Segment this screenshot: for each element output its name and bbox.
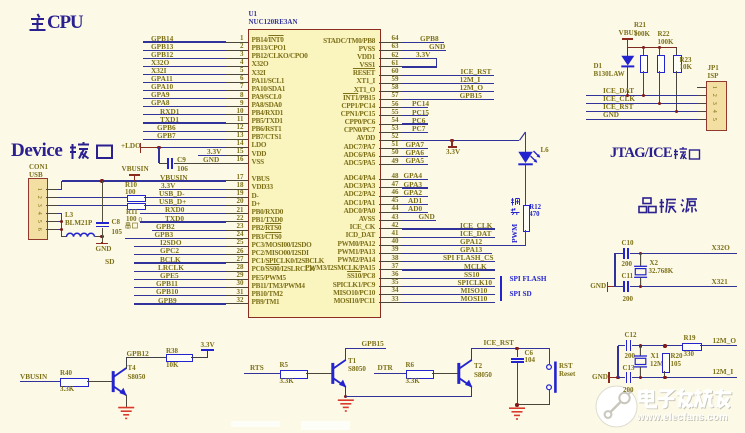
wire +LDO to U1 pin 14 bbox=[141, 147, 159, 148]
wire net TXD1 (U1 pin 11) bbox=[143, 122, 227, 123]
wire net USB_D+ (U1 pin 20) bbox=[144, 205, 226, 206]
net label GPB9 bbox=[158, 297, 177, 304]
net label PC15 bbox=[412, 109, 429, 116]
U1 pin 20 (D+) bbox=[226, 205, 248, 206]
C6 designator bbox=[525, 350, 534, 357]
U1 pin 40 (PWM0/PA12) bbox=[379, 245, 402, 246]
label SPI SD bbox=[510, 291, 532, 298]
U1 pin 24 (PB3/CTS0) bbox=[226, 238, 248, 239]
resistor R23 bbox=[673, 55, 681, 74]
junction T1 emitter/ground bbox=[344, 395, 347, 398]
R20 bottom lead bbox=[664, 371, 665, 378]
R23 value 10K bbox=[680, 64, 692, 71]
U1 pin 27 (PC1/SPICLK0/I2SBCLK) bbox=[226, 262, 248, 263]
resistor R20 bbox=[662, 353, 670, 373]
junction R20 bottom bbox=[663, 376, 666, 379]
net label GPA4 bbox=[404, 172, 423, 179]
power port 3.3V (R38) bbox=[207, 350, 208, 357]
wire R40 to T4 base bbox=[87, 381, 112, 382]
wire net USB_D- (U1 pin 19) bbox=[144, 197, 226, 198]
net label GPB12 bbox=[127, 350, 149, 357]
R21 value 100K bbox=[634, 31, 650, 38]
wire net SS10 (U1 pin 36) bbox=[402, 278, 495, 279]
wire CON1 pin3 to R11 bbox=[58, 205, 127, 206]
wire shield to L3 bbox=[62, 236, 67, 237]
title 主CPU bbox=[28, 13, 82, 33]
C13 designator bbox=[623, 365, 635, 372]
wire net GPC2 (U1 pin 26) bbox=[134, 254, 227, 255]
wire T2 collector to ICE_RST bbox=[471, 348, 472, 360]
net label 12M_I bbox=[460, 76, 481, 83]
net label GPB15 bbox=[460, 92, 482, 99]
U1 pin 17 (VBUS) bbox=[226, 180, 248, 181]
label SPI FLASH bbox=[510, 276, 547, 283]
wire net ICE_RST (reset) bbox=[472, 348, 549, 349]
net label GPB2 bbox=[156, 223, 175, 230]
wire C6/button bottom bbox=[517, 404, 549, 405]
wire net GPA9 (U1 pin 8) bbox=[143, 98, 227, 99]
net label BCLK bbox=[160, 256, 181, 263]
IC U1 NUC120RE3AN body bbox=[248, 29, 382, 318]
wire net GPA5 (U1 pin 49) bbox=[402, 164, 428, 165]
U1 pin 30 (PB11/TM3/PWM4) bbox=[226, 287, 248, 288]
U1 pin 60 (RESET) bbox=[379, 75, 402, 76]
net label X32O bbox=[712, 244, 730, 251]
connector CON1 body bbox=[28, 178, 48, 240]
wire net X32O bbox=[641, 253, 737, 254]
wire net AD0 (U1 pin 44) bbox=[402, 212, 428, 213]
wire net GPB14 (U1 pin 1) bbox=[143, 41, 227, 42]
net label GPC2 bbox=[160, 247, 179, 254]
wire net GPB13 (U1 pin 2) bbox=[143, 50, 227, 51]
net label ICE_RST (bottom) bbox=[484, 340, 514, 347]
net label AD0 bbox=[408, 205, 422, 212]
power ground GND (X2 section) bbox=[590, 283, 606, 290]
D1 value B130LAW bbox=[594, 71, 625, 78]
L3 designator bbox=[65, 212, 73, 219]
wire net GND to JP1 bbox=[586, 119, 706, 120]
X1 value 12M bbox=[650, 361, 664, 368]
U1 pin 33 (MOSI10/PC11) bbox=[379, 302, 402, 303]
junction CON1 pin6 bbox=[60, 228, 63, 231]
wire D1 cathode down bbox=[627, 48, 628, 56]
net label USB_D- bbox=[159, 190, 185, 197]
U1 pin 2 (PB13/CPO1) bbox=[226, 50, 248, 51]
net label GPB14 bbox=[151, 35, 173, 42]
wire net I2SDO (U1 pin 25) bbox=[134, 246, 227, 247]
wire emitter bus T1-T2 bbox=[346, 396, 472, 397]
wire 3.3V to U1 pin 15 bbox=[198, 155, 226, 156]
U1 pin 62 (VDD1) bbox=[379, 58, 402, 59]
connector JP1 body bbox=[706, 81, 727, 131]
wire net GPB10 (U1 pin 31) bbox=[134, 295, 227, 296]
U1 reference designator bbox=[249, 11, 258, 18]
wire net MOSI10 (U1 pin 33) bbox=[402, 302, 495, 303]
JP1 pin 3 bbox=[697, 103, 707, 104]
capacitor C8 lead lower bbox=[102, 228, 103, 243]
wire net GPB12 bbox=[126, 357, 166, 358]
U1 pin 50 (ADC6/PA6) bbox=[379, 156, 402, 157]
U1 pin 22 (PB1/TXD0) bbox=[226, 221, 248, 222]
net label VBUSIN bbox=[160, 174, 188, 181]
wire net RXD1 (U1 pin 10) bbox=[143, 114, 227, 115]
U1 pin 61 (VSS1) bbox=[379, 66, 402, 67]
R10 designator bbox=[125, 182, 137, 189]
U1 pin 9 (PA8/SDA0) bbox=[226, 106, 248, 107]
title Device 接口 bbox=[11, 141, 121, 161]
net label GPA3 bbox=[404, 181, 423, 188]
resistor R12 bbox=[523, 205, 531, 232]
net label PC14 bbox=[412, 100, 429, 107]
wire L3 to C8 node bbox=[95, 236, 103, 237]
U1 pin 3 (PB12/CLKO/CPO0) bbox=[226, 58, 248, 59]
C12 designator bbox=[625, 332, 637, 339]
U1 pin 21 (PB0/RXD0) bbox=[226, 213, 248, 214]
wire LED cathode to R12 bbox=[525, 165, 526, 205]
U1 pin 7 (PA10/SDA1) bbox=[226, 90, 248, 91]
net label RXD1 bbox=[160, 108, 179, 115]
U1 pin 39 (PWM1/PA13) bbox=[379, 253, 402, 254]
R38 value 10K bbox=[166, 362, 178, 369]
wire net GPA6 (U1 pin 50) bbox=[402, 156, 428, 157]
net label GPB10 bbox=[156, 288, 178, 295]
wire net SPICLK10 (U1 pin 35) bbox=[402, 286, 495, 287]
wire net RXD0 (U1 pin 21) bbox=[140, 213, 226, 214]
net label ICE_CLK (JTAG) bbox=[603, 96, 635, 103]
wire net 3.3V (U1 pin 18) bbox=[159, 189, 226, 190]
R40 value 3.3K bbox=[60, 386, 74, 393]
wire net ICE_RST (U1 pin 60) bbox=[402, 75, 494, 76]
net label 3.3V bbox=[416, 51, 430, 58]
wire CON1 pins 4-6 tie bbox=[58, 213, 62, 214]
wire R23 leads bbox=[676, 48, 677, 55]
junction at LDO node bbox=[157, 146, 160, 149]
capacitor C12 leads bbox=[618, 345, 625, 346]
wire net 12M_I bbox=[640, 377, 737, 378]
wire net GPA13 (U1 pin 39) bbox=[402, 253, 492, 254]
wire net RTS bbox=[244, 373, 280, 374]
U1 pin 34 (MISO10/PC10) bbox=[379, 294, 402, 295]
R11 designator bbox=[126, 209, 138, 216]
net label AD1 bbox=[408, 197, 422, 204]
wire LED anode bbox=[525, 132, 526, 152]
capacitor C8 plates bbox=[96, 222, 109, 224]
net label GPA7 bbox=[406, 141, 425, 148]
power ground GND (X1 section) bbox=[592, 374, 608, 381]
net label MISO10 bbox=[461, 287, 488, 294]
CON1 pin 6 bbox=[46, 229, 59, 230]
U1 pin 29 (PE5/PWM5) bbox=[226, 279, 248, 280]
C9 value 106 bbox=[177, 165, 188, 172]
wire net GPA3 (U1 pin 47) bbox=[402, 187, 428, 188]
wire net GPB15 bbox=[346, 348, 386, 349]
R23 designator bbox=[680, 57, 692, 64]
R38 designator bbox=[166, 348, 178, 355]
wire net GPE5 (U1 pin 29) bbox=[134, 279, 227, 280]
U1 pin 18 (VDD33) bbox=[226, 189, 248, 190]
wire net VBUSIN (T4 base) bbox=[20, 381, 60, 382]
wire T1 emitter down bbox=[345, 386, 346, 396]
net label 12M_I bbox=[713, 368, 734, 375]
label GND below C8 bbox=[96, 246, 112, 253]
CON1 reference designator bbox=[29, 164, 48, 171]
wire R6 to T2 base bbox=[432, 373, 459, 374]
resistor R22 bbox=[657, 55, 665, 74]
capacitor C10 plates bbox=[623, 248, 625, 259]
D1 designator bbox=[594, 63, 603, 70]
U1 pin 4 (X32O) bbox=[226, 66, 248, 67]
U1 pin 31 (PB10/TM2) bbox=[226, 295, 248, 296]
capacitor C11 plates bbox=[623, 281, 625, 292]
C11 designator bbox=[622, 273, 634, 280]
R19 value 330 bbox=[684, 351, 695, 358]
wire net GPA10 (U1 pin 7) bbox=[143, 90, 227, 91]
wire VBUS rail bbox=[627, 47, 676, 48]
U1 pin 52 (AVDD) bbox=[379, 140, 402, 141]
net label ICE_CLK bbox=[460, 222, 492, 229]
R19 designator bbox=[684, 335, 696, 342]
JP1 pin 2 bbox=[697, 95, 707, 96]
JP1 pin 4 bbox=[697, 111, 707, 112]
U1 pin 11 (PB5/TXD1) bbox=[226, 123, 248, 124]
U1 pin 13 (PB7/CTS1) bbox=[226, 139, 248, 140]
C10 designator bbox=[622, 240, 634, 247]
R6 designator bbox=[406, 362, 415, 369]
net label MOSI10 bbox=[461, 295, 488, 302]
U1 pin 32 (PB9/TM1) bbox=[226, 303, 248, 304]
junction D1 on ICE_DAT bbox=[626, 94, 629, 97]
U1 pin 8 (PA9/SCL0) bbox=[226, 98, 248, 99]
wire button bottom lead bbox=[549, 390, 550, 405]
wire net PC15 (U1 pin 55) bbox=[402, 115, 428, 116]
C10 value 200 bbox=[622, 261, 633, 268]
R21 designator bbox=[634, 22, 646, 29]
net label TXD1 bbox=[160, 116, 179, 123]
net label SPICLK10 bbox=[458, 279, 492, 286]
net label VBUSIN (bottom) bbox=[20, 374, 47, 381]
net label RTS bbox=[250, 365, 264, 372]
U1 pin 57 (INT1/PB15) bbox=[379, 99, 402, 100]
wire net GPB12 (U1 pin 3) bbox=[143, 58, 227, 59]
U1 pin 59 (XT1_I) bbox=[379, 83, 402, 84]
capacitor C13 leads bbox=[618, 377, 625, 378]
U1 pin 15 (VDD) bbox=[226, 155, 248, 156]
wire net 12M_I (U1 pin 59) bbox=[402, 83, 494, 84]
resistor R19 bbox=[682, 343, 702, 351]
label 串口0 bbox=[125, 222, 140, 229]
wire net GPB11 (U1 pin 30) bbox=[134, 287, 227, 288]
power port +LDO bbox=[121, 143, 141, 150]
R12 designator bbox=[529, 205, 541, 212]
T2 designator bbox=[474, 363, 482, 370]
wire net X32I bbox=[641, 286, 737, 287]
power port VBUS bbox=[619, 30, 638, 37]
wire X2 gnd vertical bbox=[614, 253, 615, 287]
net label GND bbox=[429, 43, 445, 50]
capacitor C12 plates bbox=[626, 340, 628, 351]
net label GPB11 bbox=[156, 280, 178, 287]
U1 pin 63 (PVSS) bbox=[379, 50, 402, 51]
wire R21 leads bbox=[643, 48, 644, 55]
R11 value 100 bbox=[126, 216, 137, 223]
wire net DTR bbox=[374, 373, 406, 374]
wire R22 leads bbox=[659, 48, 660, 55]
net label GPA13 bbox=[460, 246, 482, 253]
junction R22 on ICE_CLK bbox=[658, 102, 661, 105]
U1 pin 16 (VSS) bbox=[226, 163, 248, 164]
net label GPB8 bbox=[420, 35, 439, 42]
wire net GPB7 (U1 pin 13) bbox=[143, 139, 227, 140]
junction C6 top bbox=[515, 347, 518, 350]
C9 designator bbox=[177, 156, 186, 163]
net label GND (JTAG) bbox=[603, 112, 619, 119]
wire net GPB2 (U1 pin 23) bbox=[152, 230, 227, 231]
net label SPI_FLASH_CS bbox=[443, 254, 493, 261]
net label SS10 bbox=[464, 271, 479, 278]
net label PC6 bbox=[412, 117, 425, 124]
wire T2 emitter down bbox=[471, 386, 472, 396]
net label GPE5 bbox=[160, 272, 179, 279]
wire R12 to GPA12 net bbox=[525, 230, 526, 246]
U1 pin 1 (PB14/INT0) bbox=[226, 42, 248, 43]
title JTAG/ICE接口 bbox=[610, 146, 702, 162]
wire CON1 pin2 to R10 bbox=[58, 197, 127, 198]
net label 3.3V (pin18) bbox=[161, 182, 175, 189]
U1 pin 53 (CPN0/PC7) bbox=[379, 132, 402, 133]
wire net GPA4 (U1 pin 48) bbox=[402, 179, 428, 180]
U1 pin 55 (CPN1/PC15) bbox=[379, 115, 402, 116]
wire net BCLK (U1 pin 27) bbox=[134, 262, 227, 263]
junction R20 top bbox=[663, 344, 666, 347]
net label 12M_O bbox=[460, 84, 484, 91]
net label GND bbox=[419, 213, 435, 220]
wire LDO node down to C9 bbox=[158, 147, 159, 163]
junction CON1 pin5 bbox=[60, 220, 63, 223]
U1 pin 37 (PWM3/I2SMCLK/PA15) bbox=[379, 269, 402, 270]
net label GPA12 bbox=[460, 238, 482, 245]
net label 12M_O bbox=[713, 337, 737, 344]
wire X1 gnd vertical bbox=[617, 346, 618, 378]
wire net ICE_DAT (U1 pin 41) bbox=[402, 237, 495, 238]
wire net GPB9 (U1 pin 32) bbox=[134, 303, 227, 304]
junction X1 bottom bbox=[639, 376, 642, 379]
T2 value S8050 bbox=[474, 372, 492, 379]
wire net AD1 (U1 pin 45) bbox=[402, 204, 428, 205]
net label ICE_DAT bbox=[460, 230, 492, 237]
U1 pin 23 (PB2/RTS0) bbox=[226, 230, 248, 231]
wire net GPB3 (U1 pin 24) bbox=[125, 238, 226, 239]
X1 designator bbox=[651, 353, 660, 360]
wire net AVDD (U1 pin 52) bbox=[402, 140, 519, 141]
capacitor C13 plates bbox=[626, 372, 628, 383]
net label GPA11 bbox=[151, 75, 173, 82]
net label USB_D+ bbox=[159, 198, 186, 205]
R10 value 100 bbox=[125, 189, 136, 196]
U1 pin 10 (PB4/RXD1) bbox=[226, 114, 248, 115]
wire net GND (U1 pin 43) bbox=[402, 220, 436, 221]
junction VBUSIN / C8 bbox=[100, 179, 103, 182]
JP1 part ISP bbox=[708, 73, 719, 80]
RST value Reset bbox=[559, 371, 575, 378]
wire net X32O (U1 pin 4) bbox=[143, 66, 227, 67]
resistor R11 bbox=[127, 203, 147, 211]
wire net GPA7 (U1 pin 51) bbox=[402, 148, 428, 149]
capacitor C6 lead upper bbox=[517, 348, 518, 357]
wire net LRCLK (U1 pin 28) bbox=[134, 271, 227, 272]
U1 pin 51 (ADC7/PA7) bbox=[379, 148, 402, 149]
capacitor C8 lead upper bbox=[102, 181, 103, 222]
U1 pin 58 (XT1_O) bbox=[379, 91, 402, 92]
net label GPA5 bbox=[406, 157, 425, 164]
wire net MISO10 (U1 pin 34) bbox=[402, 294, 495, 295]
white patch 2 bbox=[301, 421, 350, 430]
wire net GPA2 (U1 pin 46) bbox=[402, 196, 428, 197]
resistor R5 bbox=[280, 370, 308, 379]
R22 value 100K bbox=[658, 39, 674, 46]
R22 designator bbox=[658, 31, 670, 38]
R5 value 3.3K bbox=[280, 378, 294, 385]
X2 value 32.768K bbox=[649, 268, 674, 275]
power port VBUSIN bbox=[122, 166, 149, 173]
U1 pin 26 (PC2/MISO00/I2SDI) bbox=[226, 254, 248, 255]
net label GPA10 bbox=[151, 83, 173, 90]
U1 pin 44 (ADC0/PA0) bbox=[379, 212, 402, 213]
wire net PC7 (U1 pin 53) bbox=[402, 132, 428, 133]
wire net GPA8 (U1 pin 9) bbox=[143, 106, 227, 107]
net label GPB13 bbox=[151, 43, 173, 50]
U1 pin 43 (AVSS) bbox=[379, 220, 402, 221]
U1 pin 54 (CPP0/PC6) bbox=[379, 124, 402, 125]
wire net GND (U1 pin 63) bbox=[402, 50, 446, 51]
wire net SPI_FLASH_CS (U1 pin 38) bbox=[402, 261, 495, 262]
C8 value 105 bbox=[112, 229, 123, 236]
JP1 reference designator bbox=[708, 65, 719, 72]
JP1 pin 1 bbox=[697, 87, 707, 88]
U1 pin 47 (ADC3/PA3) bbox=[379, 187, 402, 188]
U1 pin 46 (ADC2/PA2) bbox=[379, 196, 402, 197]
resistor R10 bbox=[127, 195, 147, 203]
resistor R21 bbox=[640, 55, 648, 74]
R5 designator bbox=[280, 362, 289, 369]
net label GND (pin16) bbox=[203, 156, 219, 163]
wire net PC14 (U1 pin 56) bbox=[402, 107, 428, 108]
resistor R40 bbox=[60, 378, 89, 387]
net label GPB12 bbox=[151, 51, 173, 58]
net label LRCLK bbox=[158, 264, 184, 271]
wire R5 to T1 base bbox=[306, 373, 333, 374]
CON1 pin 2 bbox=[46, 197, 59, 198]
net label PC7 bbox=[412, 125, 425, 132]
wire net MCLK (U1 pin 37) bbox=[402, 269, 495, 270]
T1 value S8050 bbox=[348, 366, 366, 373]
wire net ICE_DAT to JP1 bbox=[586, 95, 706, 96]
power port 3.3V at AVDD bbox=[451, 140, 452, 147]
net label X32I bbox=[151, 67, 166, 74]
capacitor C11 leads bbox=[615, 286, 623, 287]
junction R21 on ICE_DAT bbox=[642, 94, 645, 97]
net label GPA8 bbox=[151, 99, 170, 106]
watermark url www.elecfans.com bbox=[638, 413, 729, 424]
U1 pin 49 (ADC5/PA5) bbox=[379, 164, 402, 165]
label PWM调光 vertical bbox=[510, 197, 520, 237]
resistor R38 bbox=[166, 354, 193, 362]
net label ICE_RST (JTAG) bbox=[603, 104, 633, 111]
net label GPA2 bbox=[404, 189, 423, 196]
junction C6 bottom bbox=[515, 403, 518, 406]
capacitor C6 lead lower bbox=[517, 363, 518, 405]
wire net TXD0 (U1 pin 22) bbox=[140, 221, 226, 222]
R6 value 3.3K bbox=[406, 378, 420, 385]
